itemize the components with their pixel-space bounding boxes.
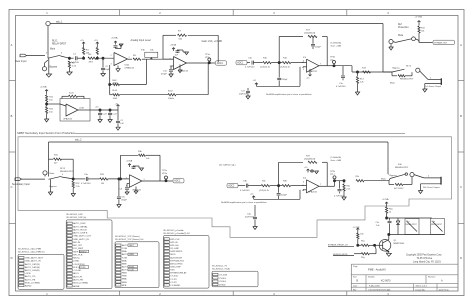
svg-text:DGND: DGND (219, 284, 226, 286)
svg-text:RNB: RNB (122, 273, 127, 275)
capacitor C51 (389, 218, 391, 221)
resistor R14 shunt (357, 72, 359, 76)
svg-text:RELAY-DPDT: RELAY-DPDT (60, 170, 74, 173)
junction R32 (72, 178, 74, 180)
svg-text:TP2a: TP2a (162, 170, 168, 172)
op-amp U7A (307, 180, 320, 193)
svg-text:ICL-SNP: ICL-SNP (170, 248, 179, 250)
wire C14 to R15 (254, 62, 263, 64)
svg-text:GND_AUTO_MUT: GND_AUTO_MUT (25, 257, 44, 260)
svg-text:(5.1kHz/4k): (5.1kHz/4k) (331, 157, 342, 159)
capacitor C36 bottom (254, 205, 256, 217)
jack circle J2 (43, 171, 47, 175)
switch RLY3 (49, 176, 62, 179)
svg-text:John Perry: John Perry (439, 288, 450, 291)
svg-text:Mute: Mute (50, 48, 56, 51)
junction test point TP1a (208, 62, 210, 64)
svg-text:SNIC-SNP: SNIC-SNP (170, 266, 181, 268)
svg-text:Mute: Mute (50, 172, 56, 175)
svg-text:CV-BG: CV-BG (219, 278, 226, 280)
box U5 (60, 99, 90, 122)
wire R33 on (108, 178, 130, 180)
resistor R35 (261, 185, 270, 187)
svg-text:+5 DGD: +5 DGD (73, 270, 81, 272)
svg-text:AUTO_METAL: AUTO_METAL (73, 225, 88, 228)
svg-text:adc: adc (330, 59, 333, 61)
svg-text:Gain: +3dB: Gain: +3dB (331, 160, 342, 162)
node adc_1 port circle (46, 21, 50, 25)
resistor bypass loop row B (391, 72, 393, 76)
svg-text:(2k2)/(3k24): (2k2)/(3k24) (304, 159, 316, 161)
svg-text:4: 4 (62, 174, 63, 176)
ground row B (424, 84, 426, 90)
wire U5 output rail (90, 109, 118, 111)
svg-text:C:\KC9570\KC9570.ddb: C:\KC9570\KC9570.ddb (368, 289, 391, 291)
wire U1A output (128, 58, 133, 60)
svg-text:Secondary Input: Secondary Input (12, 183, 30, 186)
svg-text:Page: Page (353, 266, 357, 268)
svg-text:FLR-(STDB): FLR-(STDB) (73, 267, 85, 269)
wire label to C14 (247, 62, 250, 64)
svg-text:ANT-LIVING: ANT-LIVING (170, 262, 182, 265)
wire to U1A (97, 57, 114, 59)
svg-text:RLY1: RLY1 (52, 41, 58, 43)
svg-text:BNA: BNA (122, 278, 127, 281)
svg-text:SNIP-MWCL: SNIP-MWCL (170, 251, 183, 253)
svg-text:AUTO_DET(B): AUTO_DET(B) (25, 263, 40, 266)
svg-text:RELAY-DPDT: RELAY-DPDT (395, 166, 409, 169)
svg-text:Analog Input Level: Analog Input Level (131, 39, 152, 42)
svg-text:Rear Input: Rear Input (15, 60, 27, 63)
connector bar Lch (440, 78, 442, 85)
wire switch to C1 (61, 56, 70, 58)
capacitor C62 below U6A (127, 183, 129, 185)
svg-text:SU-30704-1_video+PMB: SU-30704-1_video+PMB (18, 249, 42, 251)
svg-text:AUTO-PB: AUTO-PB (73, 278, 83, 281)
svg-text:Long Island City, NY 11101: Long Island City, NY 11101 (413, 260, 441, 263)
contact circle row A (412, 37, 416, 41)
svg-text:Bypass: Bypass (393, 68, 401, 70)
svg-text:Sheet 1 of 4: Sheet 1 of 4 (416, 285, 428, 288)
wire pot wiper down (145, 59, 147, 84)
svg-text:adc_r: adc_r (330, 173, 336, 176)
svg-text:SU-30704-1_DSP: SU-30704-1_DSP (66, 214, 83, 216)
op-amp U1A (114, 53, 128, 66)
svg-text:BYPGAS-P02: BYPGAS-P02 (170, 259, 184, 262)
svg-text:SMBT Secondary Input Section F: SMBT Secondary Input Section From Produc… (17, 131, 76, 135)
resistor R12 pullup (418, 24, 420, 26)
cap branch C24 (109, 109, 111, 111)
relay coil rail bottom (389, 234, 445, 236)
svg-text:+15VA: +15VA (170, 44, 177, 47)
capacitor C18 branch (342, 66, 344, 76)
resistor R23 above box (69, 95, 78, 97)
wire U7A plus network (299, 190, 301, 200)
ground below RLY1 (48, 58, 50, 74)
svg-text:B: B (460, 114, 462, 118)
svg-text:File:: File: (353, 289, 357, 291)
resistor bypass loop RLY4 (388, 181, 390, 185)
ground R38 (342, 197, 346, 200)
ground below R2 (67, 72, 73, 75)
svg-text:4.7uF/100: 4.7uF/100 (69, 62, 80, 64)
svg-text:P-5B: P-5B (122, 248, 127, 250)
wire U6A output (142, 180, 166, 182)
svg-text:SU-30704-1_TOP (Denon): SU-30704-1_TOP (Denon) (115, 236, 140, 238)
feedback loop U2A (163, 58, 174, 60)
ground R14 (355, 92, 359, 95)
svg-text:CY-P/I: CY-P/I (170, 282, 177, 284)
svg-text:AUTO_PB: AUTO_PB (25, 278, 36, 281)
svg-text:KC-9670: KC-9670 (381, 279, 391, 282)
svg-text:R-52: R-52 (168, 91, 174, 93)
svg-text:4.7uF/100: 4.7uF/100 (336, 86, 346, 88)
svg-text:10k0: 10k0 (113, 82, 119, 84)
feedback bias row 2 (110, 94, 112, 96)
svg-text:4.7uF/100: 4.7uF/100 (245, 67, 255, 69)
power +15A above R3 (83, 42, 85, 45)
wire U2A output (187, 62, 210, 64)
svg-text:AUTO_MET: AUTO_MET (122, 244, 135, 247)
ground row A (389, 47, 393, 50)
svg-text:RLY3: RLY3 (60, 168, 66, 170)
svg-text:MIC5: MIC5 (170, 254, 176, 256)
capacitor C1 (75, 56, 77, 60)
svg-text:SU-30704-1_DSP (lx): SU-30704-1_DSP (lx) (66, 217, 86, 219)
switch RLY1 arm (48, 55, 61, 58)
svg-text:U-5B: U-5B (79, 108, 84, 110)
wire R15 junction (271, 62, 282, 64)
capacitor C33 (245, 184, 247, 188)
svg-text:A: A (460, 43, 462, 47)
svg-text:4: 4 (61, 53, 62, 55)
svg-text:4k7 FL/NC: 4k7 FL/NC (394, 188, 404, 190)
svg-text:TP2b: TP2b (330, 171, 336, 173)
op-amp U3A (307, 59, 320, 72)
svg-text:MOD_(COMM): MOD_(COMM) (73, 283, 88, 285)
svg-text:(2k2)/(3k24): (2k2)/(3k24) (304, 33, 316, 35)
svg-text:B: B (11, 114, 13, 118)
svg-text:SU-30704-1_TV(S): SU-30704-1_TV(S) (212, 269, 230, 271)
svg-text:220pF: 220pF (282, 79, 289, 81)
svg-text:+5 VSB: +5 VSB (353, 227, 361, 229)
junction R38 (343, 180, 345, 182)
svg-text:220pF: 220pF (315, 47, 322, 49)
svg-text:Mute: Mute (390, 82, 396, 85)
resistor R5 (133, 58, 141, 60)
svg-text:AUTO_PD: AUTO_PD (25, 275, 36, 278)
ground stub U1A (117, 66, 119, 69)
svg-text:+15VA: +15VA (126, 160, 133, 163)
capacitor C12 below U2A (171, 65, 174, 67)
svg-text:AUTO_DET(A): AUTO_DET(A) (25, 266, 40, 269)
net label ADC2 out (173, 179, 184, 183)
svg-text:220pF: 220pF (281, 194, 288, 196)
svg-text:No ADB amplification pin to cl: No ADB amplification pin to close in par… (266, 93, 312, 96)
resistor R2 (68, 58, 70, 60)
svg-text:MIC5a: MIC5a (73, 258, 80, 260)
resistor R13 inline (363, 71, 371, 73)
svg-text:VP2a: VP2a (162, 173, 168, 175)
connector Secondary Input arrow (15, 178, 22, 181)
svg-text:RLY2: RLY2 (406, 66, 412, 68)
bottom section enclosure box (18, 137, 452, 238)
svg-text:OPA2132: OPA2132 (308, 70, 318, 73)
resistor R33 (100, 178, 108, 180)
svg-text:(2.2k)/5.1k: (2.2k)/5.1k (260, 67, 271, 69)
svg-text:+5 VSB: +5 VSB (415, 17, 423, 19)
junction TP2a (165, 180, 167, 182)
svg-text:R-52: R-52 (113, 90, 119, 92)
op-amp U2A (174, 57, 187, 70)
svg-text:3: 3 (46, 53, 47, 55)
resistor R7 (178, 34, 187, 36)
svg-text:Copyright 2005 Part Express: Copyright 2005 Part Express Corp (406, 254, 442, 257)
svg-text:(2.2k)/5.1k: (2.2k)/5.1k (280, 67, 291, 69)
svg-text:Number: Number (368, 276, 375, 279)
svg-text:Protection: Protection (398, 26, 409, 29)
svg-text:RELAY-DPDT: RELAY-DPDT (431, 223, 443, 226)
svg-text:CY-P/I: CY-P/I (170, 279, 177, 281)
relay coil rail top (387, 217, 432, 219)
svg-text:BNA: BNA (122, 259, 127, 262)
svg-text:2: 2 (126, 177, 127, 179)
resistor R54 (361, 253, 369, 255)
net label ADC1 in (236, 60, 247, 64)
relay coil K2 (431, 219, 445, 235)
svg-text:PME - AudioXX: PME - AudioXX (368, 268, 386, 272)
ground R32 (71, 194, 75, 197)
svg-text:VP1a: VP1a (205, 57, 211, 59)
svg-text:RELAY-DPDT: RELAY-DPDT (406, 223, 418, 226)
resistor R53 pullup (357, 239, 359, 246)
resistor R38 shunt (343, 181, 345, 184)
wire U1A inverting branch (109, 85, 111, 95)
wire U3A output (319, 65, 334, 67)
svg-text:AUTO-PL: AUTO-PL (73, 275, 83, 278)
relay coil K1 (405, 219, 419, 235)
svg-text:No ADB amplification pin to cl: No ADB amplification pin to close in par… (221, 201, 267, 204)
capacitor C37 branch (339, 181, 341, 189)
svg-text:ADC1: ADC1 (217, 62, 224, 65)
svg-text:Date:: Date: (353, 285, 358, 288)
svg-text:+15VA: +15VA (111, 37, 118, 40)
junction R19 (96, 57, 98, 59)
capacitor C2 shunt (102, 57, 104, 59)
svg-text:AGNB: AGNB (73, 285, 80, 288)
ground Q1 emitter (388, 252, 390, 254)
svg-text:BYPASS-RELAY: BYPASS-RELAY (170, 272, 187, 275)
transistor Q1 (379, 240, 391, 252)
svg-text:6: 6 (303, 61, 304, 63)
svg-text:Ref: Ref (398, 24, 402, 26)
svg-text:D: D (11, 256, 13, 260)
svg-text:Lch Direct Output: Lch Direct Output (425, 85, 442, 88)
diode D51 (397, 218, 399, 221)
svg-text:C3x: C3x (121, 197, 125, 199)
svg-text:10k: 10k (360, 234, 363, 236)
svg-text:HPL-SH: HPL-SH (170, 245, 178, 247)
wire C33 to R35 (248, 185, 261, 187)
svg-text:10k0: 10k0 (113, 98, 119, 100)
switch row B (392, 69, 405, 72)
svg-text:SU-30704-1_TV: SU-30704-1_TV (212, 266, 228, 268)
resistor R52 (361, 244, 369, 246)
resistor R3 (83, 56, 85, 58)
svg-text:Gain: LV4, +17 dB: Gain: LV4, +17 dB (202, 40, 223, 43)
junction R21 R22 (46, 103, 48, 105)
resistor R21 (46, 93, 48, 95)
svg-text:4.7uF/100: 4.7uF/100 (81, 183, 91, 185)
capacitor C14 (251, 61, 253, 65)
net label ADC1 out (216, 61, 227, 65)
svg-text:TP1a: TP1a (205, 54, 211, 56)
top section divider line (75, 132, 405, 134)
svg-text:TBD: TBD (170, 270, 175, 272)
svg-text:5: 5 (303, 190, 304, 192)
wire bottom bus (49, 141, 389, 143)
cap branch C25 tall (117, 105, 119, 108)
svg-text:70-35 47th Ave: 70-35 47th Ave (417, 257, 433, 260)
svg-text:BNB: BNB (122, 263, 127, 265)
svg-text:AUTO_LINE B: AUTO_LINE B (73, 232, 88, 235)
resistor R51 (386, 206, 388, 207)
junction R3 (83, 57, 85, 59)
wire U7A output (319, 185, 335, 187)
wire C31 to R33 (88, 178, 100, 180)
frame zone ticks (119, 10, 121, 16)
ground R22 (44, 119, 48, 122)
junction TP2 top (333, 65, 335, 67)
svg-text:adc_2: adc_2 (75, 139, 82, 142)
svg-text:SU-30704-1_TOP (Denon) 2x1: SU-30704-1_TOP (Denon) 2x1 (115, 239, 144, 241)
ground RLY4 (420, 184, 422, 191)
switch row A (393, 41, 395, 44)
capacitor C15 on vertical (278, 63, 280, 78)
svg-text:7: 7 (320, 184, 321, 186)
svg-text:PNB: PNB (122, 276, 127, 278)
svg-text:(for midPoint adj.): (for midPoint adj.) (219, 164, 236, 167)
contact circle row B (416, 68, 420, 72)
svg-text:adc_1: adc_1 (56, 21, 63, 24)
svg-text:(2.2k)/5.1k: (2.2k)/5.1k (259, 190, 270, 192)
svg-text:MIC_INT: MIC_INT (73, 245, 82, 247)
wire U3A plus network (299, 67, 301, 87)
connector bar Rch (440, 177, 442, 185)
resistor R36 (282, 185, 291, 187)
wire R16 to U3A (291, 62, 307, 64)
svg-text:10k0a: 10k0a (168, 98, 175, 100)
junction R2 (68, 57, 70, 59)
power cluster above U7A (307, 169, 309, 172)
svg-text:Mute: Mute (398, 34, 404, 37)
svg-text:RNB: RNB (122, 282, 127, 284)
svg-text:LGND: LGND (73, 261, 79, 263)
svg-text:1: 1 (129, 57, 130, 59)
op-amp U5B (66, 104, 78, 116)
wire R36 to U7A (291, 185, 307, 187)
svg-text:2: 2 (111, 55, 112, 57)
connector Rear Input arrow (20, 54, 27, 57)
resistor R22 (46, 104, 48, 106)
wire from bus to row B switch (382, 71, 384, 72)
svg-text:SU-30704-1_pCamAv(S) D4: SU-30704-1_pCamAv(S) D4 (163, 232, 190, 235)
capacitor C32 shunt (118, 179, 120, 196)
svg-text:6: 6 (303, 181, 304, 183)
svg-text:HPL-IN: HPL-IN (170, 242, 178, 244)
svg-text:NPL-PLB: NPL-PLB (73, 254, 83, 256)
svg-text:7: 7 (320, 64, 321, 66)
switch RLY4 (389, 179, 390, 181)
jack circle row A (389, 40, 393, 44)
power stub below U3A (309, 69, 311, 73)
ground stub U6A plus (135, 187, 137, 192)
svg-text:AUTO_DISP: AUTO_DISP (73, 222, 86, 225)
feedback bias row 1 (110, 84, 112, 86)
net label BYPASS OUT (433, 40, 455, 44)
svg-text:+5V(STDB): +5V(STDB) (73, 264, 85, 266)
svg-text:Mute: Mute (381, 178, 387, 181)
svg-text:GND_AUTO_OUT: GND_AUTO_OUT (73, 235, 92, 238)
svg-text:MIC-IN: MIC-IN (73, 242, 80, 244)
capacitor C16 on loop (312, 37, 314, 44)
wire label to C33 (238, 185, 245, 187)
power arrow +15 mid (255, 83, 257, 86)
resistor R17 (308, 35, 317, 37)
resistor R4 (88, 57, 96, 59)
svg-text:AUX-MODE: AUX-MODE (170, 256, 182, 259)
svg-text:470pF: 470pF (161, 74, 168, 76)
wire R35 junction (270, 185, 282, 187)
svg-text:Gain: +3dB: Gain: +3dB (331, 46, 342, 48)
svg-text:4.7uF/100: 4.7uF/100 (240, 190, 250, 192)
svg-text:CV-BGND: CV-BGND (170, 285, 180, 287)
svg-text:(5pF/1nF): (5pF/1nF) (239, 94, 248, 96)
svg-text:R3c: R3c (262, 180, 266, 182)
wire U5 inside (60, 104, 66, 106)
op-amp U6A (129, 175, 142, 188)
svg-text:+15VA: +15VA (40, 86, 47, 89)
svg-text:ADC2: ADC2 (228, 185, 235, 188)
feedback loop U3A (278, 37, 280, 63)
svg-text:SNIP_MIXEQ: SNIP_MIXEQ (73, 251, 87, 253)
ground stub U2A plus (179, 65, 181, 71)
jack circle J1 (42, 67, 46, 71)
svg-text:Size: Size (353, 277, 357, 279)
svg-text:C5x: C5x (376, 222, 380, 224)
svg-text:P-5B: P-5B (122, 257, 127, 259)
svg-text:3: 3 (111, 64, 112, 66)
junction TP2b (333, 180, 335, 182)
feedback loop U6A (120, 155, 122, 179)
svg-text:OPA2132: OPA2132 (308, 191, 318, 194)
svg-text:BPB: BPB (122, 285, 127, 287)
svg-text:D: D (460, 256, 462, 260)
resistor R32 (72, 179, 74, 181)
svg-text:MMBT3904: MMBT3904 (394, 243, 406, 245)
svg-text:Revision: Revision (428, 277, 435, 279)
svg-text:GND_AUTO_IN: GND_AUTO_IN (73, 238, 89, 241)
svg-text:BNA: BNA (122, 250, 127, 253)
junction left branch (356, 71, 358, 73)
wire RLY4 out (414, 175, 424, 178)
svg-text:AUTO_LBD(B): AUTO_LBD(B) (25, 269, 40, 272)
svg-text:CV-BG: CV-BG (219, 281, 226, 283)
svg-text:AUTO_RCCB: AUTO_RCCB (73, 228, 87, 231)
svg-text:SU-30704-1_pCamAv: SU-30704-1_pCamAv (163, 229, 184, 232)
svg-text:3: 3 (46, 174, 47, 176)
svg-text:ADC2: ADC2 (174, 180, 181, 183)
